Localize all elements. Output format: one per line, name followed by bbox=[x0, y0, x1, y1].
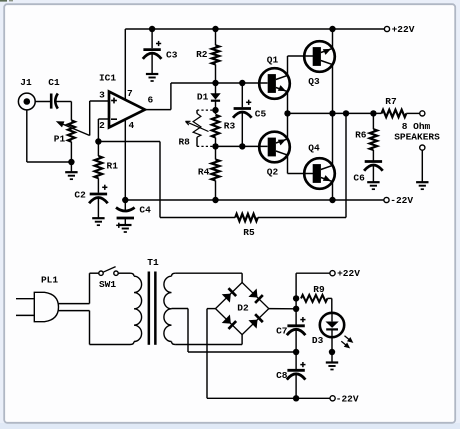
svg-text:P1: P1 bbox=[54, 134, 66, 145]
svg-text:D2: D2 bbox=[237, 302, 249, 313]
svg-text:C5: C5 bbox=[255, 108, 267, 119]
svg-text:J1: J1 bbox=[20, 77, 32, 88]
svg-text:Q1: Q1 bbox=[267, 54, 279, 65]
svg-text:PL1: PL1 bbox=[41, 275, 58, 286]
svg-text:C8: C8 bbox=[276, 370, 288, 381]
svg-text:8 Ohm: 8 Ohm bbox=[402, 121, 431, 132]
svg-text:C4: C4 bbox=[139, 204, 151, 215]
svg-text:SPEAKERS: SPEAKERS bbox=[394, 131, 440, 142]
svg-text:C1: C1 bbox=[48, 77, 60, 88]
svg-text:3: 3 bbox=[99, 90, 105, 101]
svg-text:R1: R1 bbox=[107, 160, 119, 171]
svg-text:R7: R7 bbox=[385, 96, 397, 107]
svg-text:R5: R5 bbox=[243, 227, 255, 238]
svg-text:4: 4 bbox=[129, 120, 135, 131]
svg-text:R8: R8 bbox=[178, 137, 190, 148]
svg-text:Q2: Q2 bbox=[267, 167, 279, 178]
svg-text:-22V: -22V bbox=[390, 195, 413, 206]
svg-text:IC1: IC1 bbox=[99, 73, 116, 84]
svg-text:C2: C2 bbox=[74, 190, 86, 201]
svg-text:C3: C3 bbox=[166, 50, 178, 61]
svg-text:2: 2 bbox=[99, 120, 105, 131]
svg-text:T1: T1 bbox=[147, 257, 159, 268]
svg-text:SW1: SW1 bbox=[99, 279, 116, 290]
svg-text:Q3: Q3 bbox=[308, 76, 320, 87]
svg-text:D1: D1 bbox=[197, 92, 209, 103]
svg-text:R6: R6 bbox=[355, 129, 367, 140]
svg-text:R3: R3 bbox=[224, 121, 236, 132]
svg-text:R2: R2 bbox=[196, 49, 208, 60]
svg-text:+22V: +22V bbox=[392, 24, 415, 35]
svg-text:C7: C7 bbox=[276, 325, 288, 336]
svg-text:7: 7 bbox=[127, 88, 133, 99]
svg-text:R4: R4 bbox=[198, 167, 210, 178]
svg-text:R9: R9 bbox=[313, 284, 325, 295]
svg-text:D3: D3 bbox=[312, 335, 324, 346]
svg-text:6: 6 bbox=[147, 95, 153, 106]
svg-text:-22V: -22V bbox=[336, 393, 359, 404]
svg-text:C6: C6 bbox=[353, 172, 365, 183]
svg-text:+22V: +22V bbox=[337, 268, 360, 279]
svg-text:Q4: Q4 bbox=[308, 143, 320, 154]
